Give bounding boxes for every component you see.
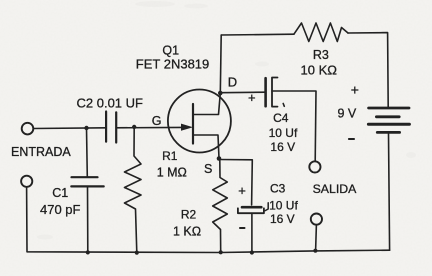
svg-text:Q1: Q1 [162, 43, 179, 57]
svg-text:R1: R1 [162, 149, 178, 163]
svg-text:S: S [204, 162, 212, 176]
svg-text:470 pF: 470 pF [40, 202, 81, 217]
svg-text:1 KΩ: 1 KΩ [173, 224, 201, 238]
svg-text:+: + [248, 90, 256, 105]
svg-text:+: + [238, 183, 246, 198]
svg-text:C3: C3 [270, 182, 286, 196]
svg-text:+: + [351, 82, 359, 98]
svg-text:G: G [152, 114, 162, 128]
svg-text:16 V: 16 V [270, 212, 295, 226]
svg-text:ENTRADA: ENTRADA [11, 145, 71, 159]
svg-text:16 V: 16 V [270, 140, 295, 154]
svg-text:10 Uf: 10 Uf [269, 126, 298, 140]
svg-text:R3: R3 [313, 48, 329, 62]
svg-text:C4: C4 [273, 111, 289, 125]
svg-text:10 KΩ: 10 KΩ [301, 63, 338, 78]
svg-text:10 Uf: 10 Uf [269, 199, 298, 213]
svg-text:D: D [228, 75, 237, 90]
svg-text:R2: R2 [181, 208, 197, 222]
svg-text:1 MΩ: 1 MΩ [157, 165, 187, 179]
svg-text:C1: C1 [52, 186, 68, 200]
svg-text:9 V: 9 V [338, 107, 357, 121]
svg-text:C2 0.01 UF: C2 0.01 UF [77, 95, 144, 110]
svg-text:FET 2N3819: FET 2N3819 [136, 56, 209, 71]
svg-text:SALIDA: SALIDA [313, 182, 358, 196]
